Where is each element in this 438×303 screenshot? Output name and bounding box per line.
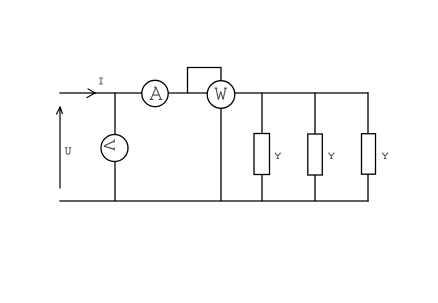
admittance box Y2 <box>308 134 323 175</box>
label Y1 <box>275 153 281 158</box>
voltage arrow U <box>57 107 63 188</box>
wire load branch 3 <box>367 93 369 201</box>
ammeter A <box>142 80 168 106</box>
wire top bus <box>60 92 368 94</box>
label Y2 <box>328 153 334 158</box>
wattmeter voltage-coil loop <box>188 68 222 94</box>
voltmeter V <box>101 135 128 162</box>
label I <box>99 78 103 84</box>
label Y3 <box>382 153 388 158</box>
wire bottom bus <box>60 200 368 202</box>
label U <box>65 148 71 155</box>
wire load branch 1 <box>261 93 263 201</box>
wire load branch 2 <box>314 93 316 201</box>
wire wattmeter current-coil drop <box>220 95 222 201</box>
admittance box Y1 <box>254 134 270 175</box>
current arrow on top wire <box>87 89 96 98</box>
admittance box Y3 <box>362 134 376 175</box>
wattmeter W <box>207 81 235 109</box>
wire voltmeter branch <box>114 93 116 201</box>
